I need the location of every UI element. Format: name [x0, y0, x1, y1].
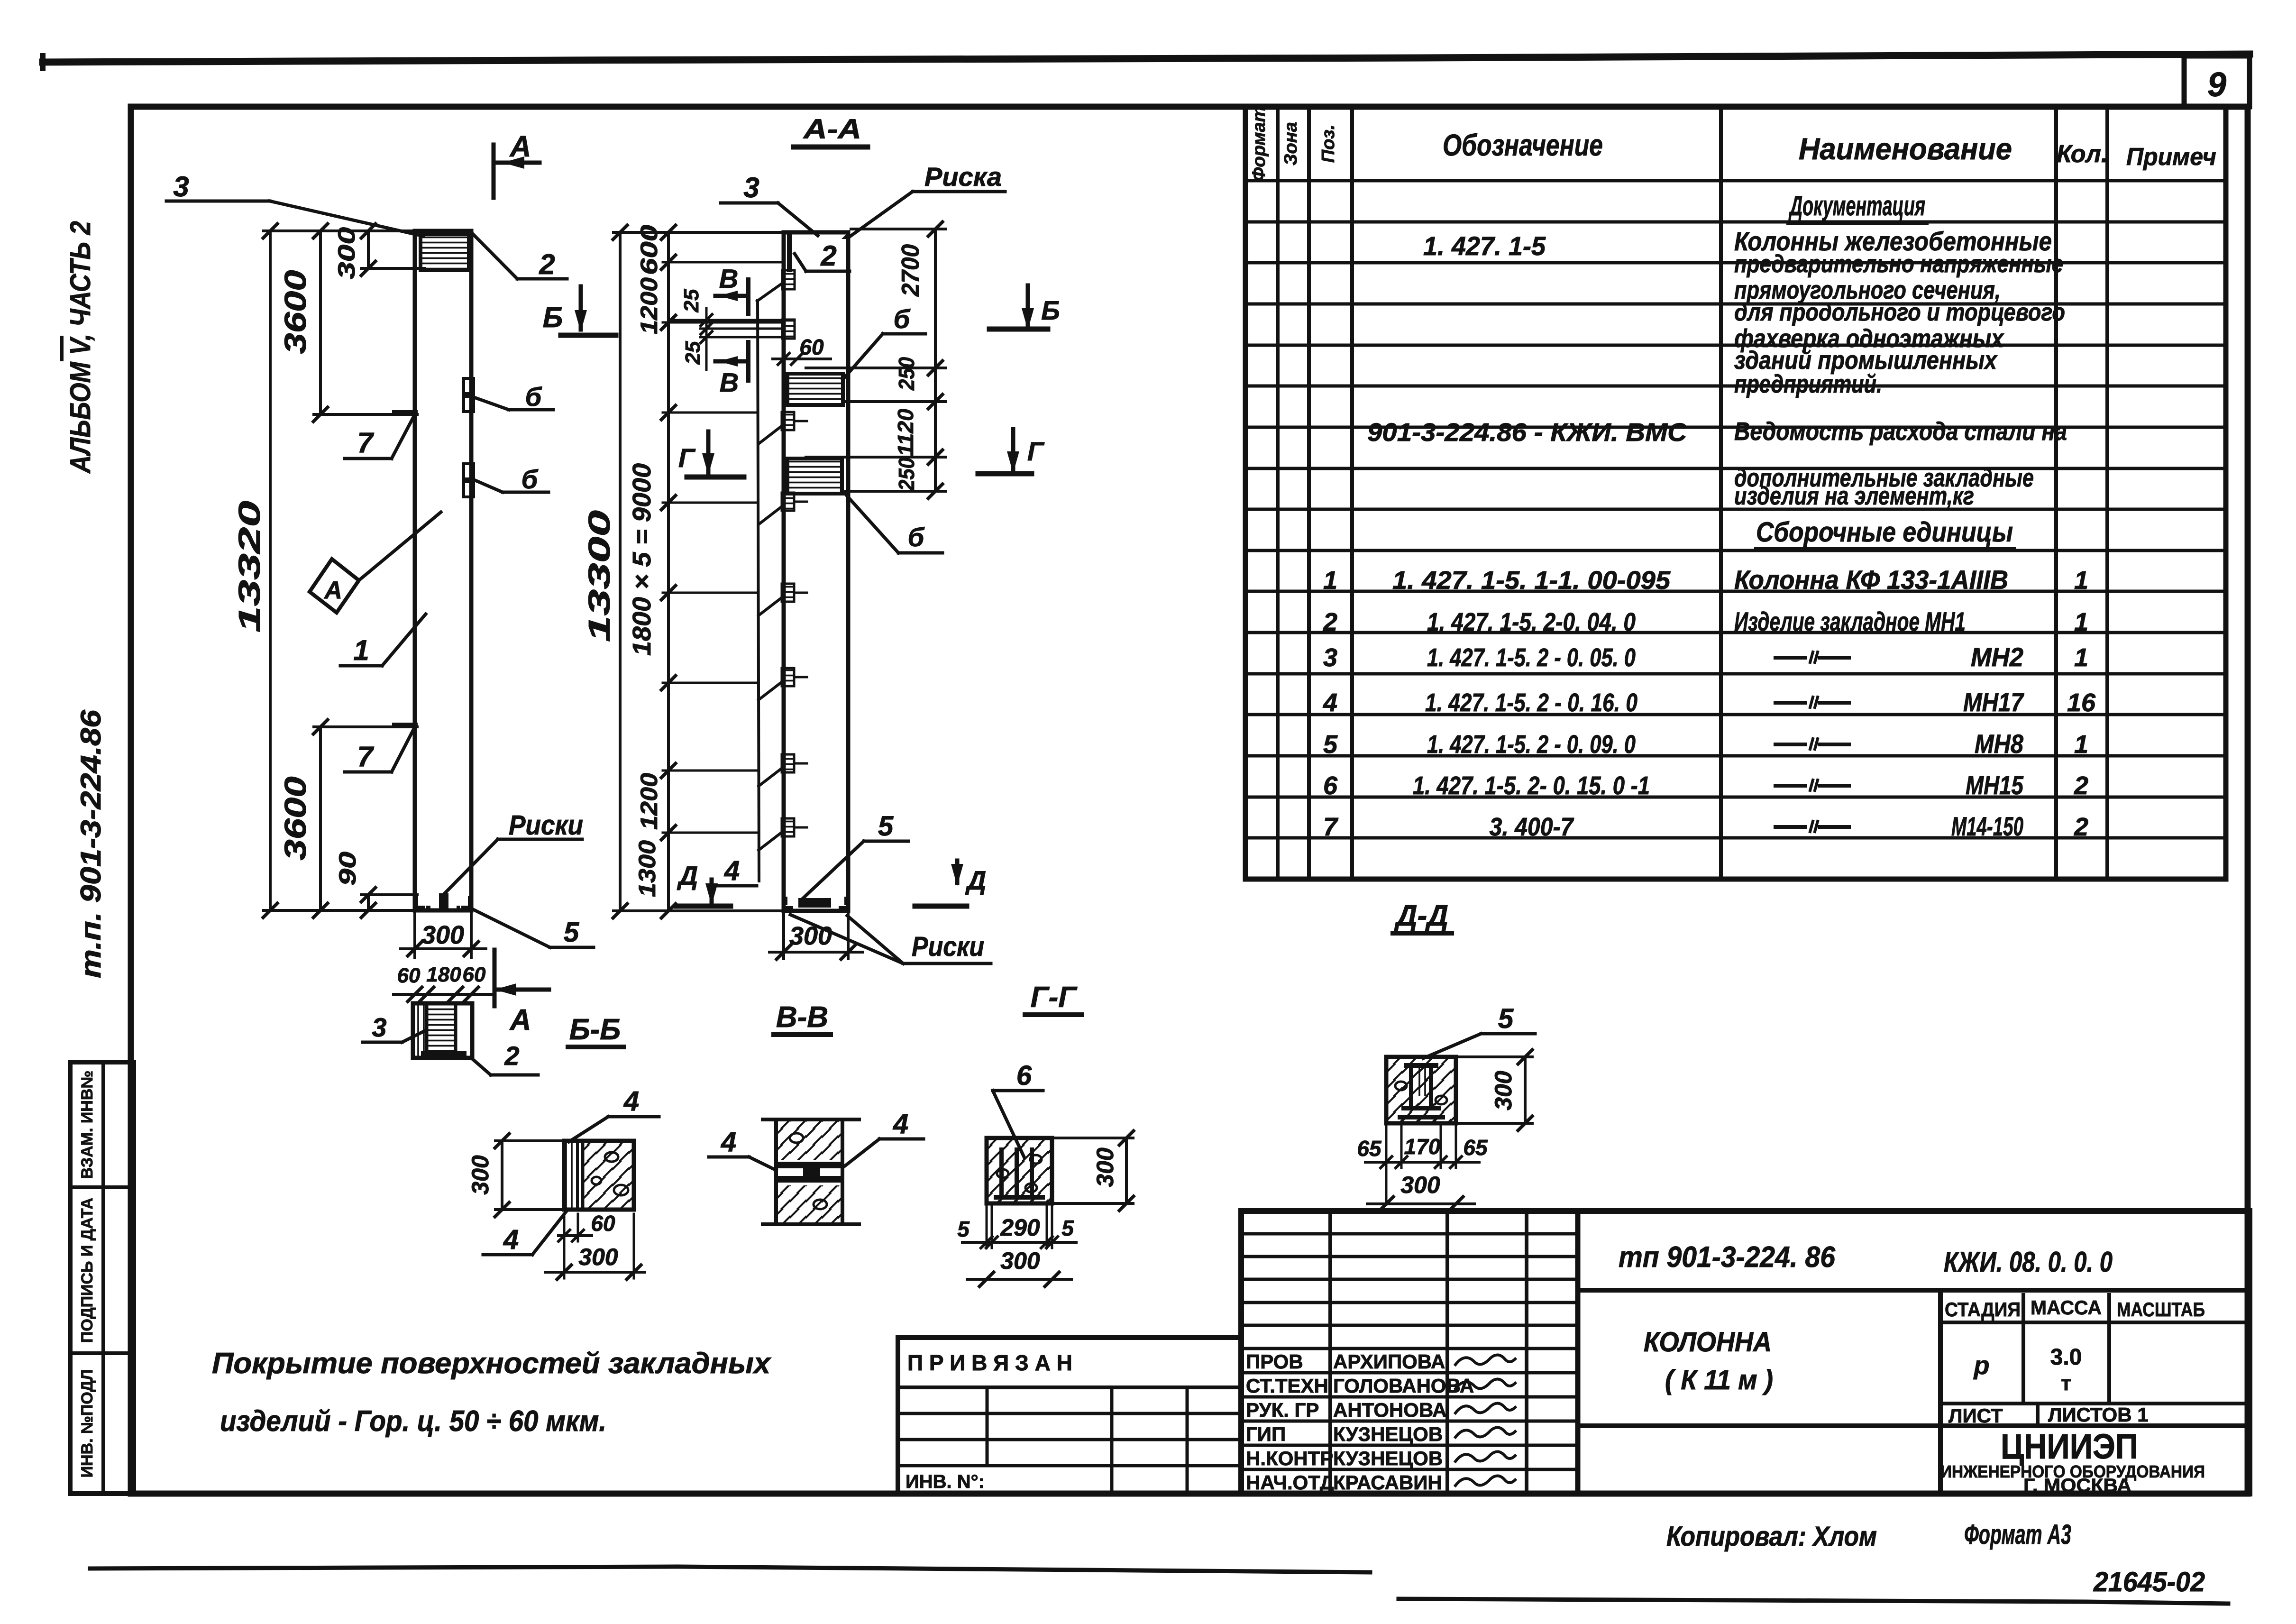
svg-text:предварительно напряженные: предварительно напряженные: [1734, 250, 2063, 278]
svg-text:1: 1: [2074, 566, 2088, 595]
dimension 90 line: [367, 895, 370, 910]
specification table outer box: [1245, 107, 2226, 879]
extension line bottom of column 1: [264, 909, 415, 912]
extension lines below column 1: [413, 913, 416, 958]
svg-text:Г: Г: [1027, 436, 1045, 466]
dashed corner mark bottom right of column 1: [458, 898, 469, 907]
svg-text:Б: Б: [543, 302, 563, 333]
svg-text:Риски: Риски: [912, 931, 984, 962]
svg-text:ВЗАМ. ИНВ№: ВЗАМ. ИНВ№: [78, 1071, 96, 1179]
svg-text:ГОЛОВАНОВА: ГОЛОВАНОВА: [1333, 1375, 1474, 1397]
extension lines below A-A: [782, 913, 785, 959]
D-D dimension 65-170-65: [1365, 1161, 1479, 1164]
svg-text:2: 2: [539, 248, 555, 280]
surface marker A rhombus: [310, 559, 359, 613]
svg-text:6: 6: [1323, 771, 1338, 800]
svg-text:1300: 1300: [634, 840, 660, 897]
svg-text:ГИП: ГИП: [1246, 1423, 1286, 1445]
svg-text:1: 1: [2074, 608, 2088, 636]
svg-text:4: 4: [503, 1224, 519, 1255]
svg-text:В: В: [719, 264, 738, 294]
svg-text:300: 300: [1400, 1172, 1440, 1198]
riska notch top right of A-A: [842, 232, 848, 239]
D-D dimension 300 right: [1524, 1057, 1527, 1123]
svg-text:1: 1: [2074, 730, 2088, 759]
embedded plate MN1 edge bar at top of A-A: [787, 234, 792, 272]
V-V break line top: [763, 1118, 859, 1121]
bolt mark upper near top (item 4): [782, 270, 795, 289]
svg-text:б: б: [908, 522, 925, 552]
svg-text:170: 170: [1404, 1134, 1441, 1159]
svg-text:т: т: [2061, 1372, 2071, 1395]
svg-text:Сборочные единицы: Сборочные единицы: [1756, 517, 2013, 548]
dimension 13300 line: [619, 232, 622, 911]
svg-text:ЛИСТОВ 1: ЛИСТОВ 1: [2048, 1404, 2149, 1426]
svg-text:МН17: МН17: [1963, 687, 2024, 717]
svg-text:290: 290: [1000, 1214, 1040, 1241]
svg-text:Копировал: Хлом: Копировал: Хлом: [1666, 1521, 1877, 1552]
svg-text:Г: Г: [678, 443, 696, 473]
D-D dimension 300 bottom: [1367, 1202, 1474, 1205]
V-V concrete body: [776, 1119, 842, 1224]
extension line bottom of A-A: [613, 909, 784, 912]
svg-text:3600: 3600: [278, 270, 312, 354]
svg-text:1800 × 5 = 9000: 1800 × 5 = 9000: [628, 463, 656, 656]
svg-text:250: 250: [894, 357, 919, 391]
sheet bottom edge line right: [1399, 1599, 2228, 1604]
svg-text:М14-150: М14-150: [1951, 811, 2023, 841]
svg-text:13300: 13300: [582, 510, 616, 642]
svg-text:21645-02: 21645-02: [2093, 1567, 2205, 1597]
overline of roman numeral V: [60, 338, 64, 359]
sheet bottom edge line left: [90, 1567, 1370, 1572]
svg-text:Покрытие поверхностей заклад: Покрытие поверхностей закладных: [212, 1347, 772, 1380]
svg-text:3600: 3600: [278, 777, 312, 861]
svg-text:Кол.: Кол.: [2057, 140, 2108, 168]
dimension 13320 line: [269, 231, 272, 910]
svg-text:4: 4: [721, 1127, 736, 1157]
dimension 3600 top line: [319, 231, 322, 414]
svg-text:А: А: [509, 1004, 531, 1037]
svg-text:1. 427. 1-5. 2 - 0. 09. 0: 1. 427. 1-5. 2 - 0. 09. 0: [1427, 730, 1636, 759]
V-V joint plates: [776, 1162, 842, 1168]
extension line at 300 top level: [361, 267, 424, 270]
svg-text:Д: Д: [677, 861, 698, 890]
svg-text:3: 3: [173, 171, 189, 202]
svg-text:Риски: Риски: [509, 810, 583, 841]
svg-text:Г. МОСКВА: Г. МОСКВА: [2023, 1475, 2131, 1496]
svg-text:Изделие закладное МН1: Изделие закладное МН1: [1734, 606, 1966, 636]
svg-text:25: 25: [680, 289, 703, 312]
svg-text:4: 4: [623, 1086, 639, 1117]
riska mark at column 1 bottom center: [439, 893, 448, 909]
svg-text:300: 300: [421, 921, 464, 949]
svg-text:60: 60: [591, 1211, 615, 1236]
svg-text:300: 300: [467, 1155, 494, 1195]
svg-text:7: 7: [1323, 813, 1339, 841]
svg-text:600: 600: [636, 225, 662, 275]
extension line at 90 level: [361, 893, 417, 896]
dimension 300 below column 1 line: [401, 947, 486, 950]
svg-text:ЛИСТ: ЛИСТ: [1948, 1404, 2003, 1427]
svg-text:т.п. 901-3-224.86: т.п. 901-3-224.86: [75, 709, 107, 978]
svg-text:5: 5: [957, 1217, 970, 1241]
section cut mark A top: [492, 145, 496, 198]
embedded plate MN1 (item 3) hatched box on column 1 top: [421, 234, 469, 270]
D-D anchor I-profile: [1404, 1063, 1438, 1068]
bolt marks (item 4) along A-A left edge: [782, 412, 794, 430]
svg-text:Поз.: Поз.: [1318, 125, 1338, 163]
svg-text:1200: 1200: [636, 277, 662, 334]
svg-text:АЛЬБОМ V, ЧАСТЬ 2: АЛЬБОМ V, ЧАСТЬ 2: [64, 221, 96, 474]
svg-text:250: 250: [894, 458, 919, 491]
svg-text:5: 5: [1323, 730, 1338, 759]
svg-text:предприятий.: предприятий.: [1734, 370, 1882, 398]
svg-text:7: 7: [357, 427, 374, 459]
svg-text:4: 4: [724, 855, 740, 886]
svg-text:б: б: [521, 464, 539, 494]
svg-text:Г-Г: Г-Г: [1031, 981, 1078, 1014]
svg-text:60: 60: [799, 335, 824, 359]
svg-text:Б-Б: Б-Б: [569, 1013, 621, 1046]
svg-text:3: 3: [1323, 643, 1337, 672]
svg-text:1: 1: [353, 634, 369, 666]
G-G dimension 300 bottom: [967, 1278, 1071, 1281]
svg-text:РУК. ГР: РУК. ГР: [1246, 1399, 1319, 1421]
section A bottom plate bar: [421, 1051, 467, 1058]
dashed corner mark bottom left of column 1: [417, 898, 429, 907]
svg-text:Формат: Формат: [1249, 106, 1269, 182]
svg-text:2: 2: [2074, 813, 2088, 841]
extension lines for MN15 boxes: [806, 367, 946, 369]
specification table column lines: [1276, 107, 1280, 879]
svg-text:МН8: МН8: [1975, 729, 2024, 759]
svg-text:90: 90: [334, 852, 361, 886]
title block left grid rows: [1241, 1232, 1578, 1236]
svg-text:5: 5: [878, 811, 894, 842]
svg-text:1. 427. 1-5. 2-0. 04. 0: 1. 427. 1-5. 2-0. 04. 0: [1427, 608, 1636, 636]
left stamp column box: [70, 1062, 134, 1494]
svg-text:1120: 1120: [893, 409, 918, 456]
svg-text:13320: 13320: [232, 501, 266, 633]
svg-text:АРХИПОВА: АРХИПОВА: [1333, 1350, 1445, 1373]
svg-text:300: 300: [1490, 1071, 1517, 1110]
svg-text:65: 65: [1463, 1135, 1488, 1160]
section A plate strip hatch: [413, 1003, 427, 1058]
title block right horizontal lines: [1578, 1288, 2250, 1293]
svg-text:тп 901-3-224. 86: тп 901-3-224. 86: [1619, 1241, 1835, 1274]
svg-text:Н.КОНТР: Н.КОНТР: [1246, 1447, 1333, 1469]
svg-text:2: 2: [1323, 608, 1337, 636]
svg-text:Наименование: Наименование: [1799, 132, 2012, 166]
svg-text:А-А: А-А: [803, 114, 861, 145]
svg-text:АНТОНОВА: АНТОНОВА: [1333, 1399, 1447, 1421]
svg-text:9: 9: [2207, 66, 2226, 104]
svg-text:МН15: МН15: [1966, 770, 2024, 800]
svg-text:3: 3: [743, 172, 759, 203]
svg-text:Б: Б: [1041, 295, 1060, 325]
svg-text:1. 427. 1-5: 1. 427. 1-5: [1423, 231, 1546, 261]
svg-text:СТАДИЯ: СТАДИЯ: [1945, 1298, 2021, 1321]
B-B concrete blobs: [605, 1152, 618, 1162]
svg-text:изделий - Гор. ц. 50 ÷ 60 мкм: изделий - Гор. ц. 50 ÷ 60 мкм.: [220, 1405, 606, 1438]
title block verticals left part: [1328, 1211, 1332, 1494]
svg-text:300: 300: [333, 227, 360, 279]
svg-text:180: 180: [426, 963, 461, 986]
svg-text:Обозначение: Обозначение: [1443, 128, 1603, 162]
svg-text:ЦНИИЭП: ЦНИИЭП: [2001, 1427, 2138, 1466]
G-G anchor bars: [999, 1147, 1004, 1197]
svg-text:3. 400-7: 3. 400-7: [1490, 813, 1575, 841]
svg-text:КЖИ. 08. 0. 0. 0: КЖИ. 08. 0. 0. 0: [1944, 1246, 2113, 1278]
svg-text:Риска: Риска: [924, 162, 1002, 192]
dimension 3600 bottom line: [319, 727, 322, 910]
svg-text:5: 5: [1498, 1003, 1514, 1034]
G-G square: [987, 1138, 1052, 1203]
V-V break line bottom: [763, 1222, 859, 1226]
dimension 60-180-60 line: [393, 993, 493, 996]
svg-text:6: 6: [1016, 1060, 1032, 1091]
svg-text:300: 300: [578, 1244, 618, 1270]
svg-text:б: б: [525, 382, 542, 412]
G-G dimension 300 right: [1125, 1138, 1128, 1203]
svg-text:2: 2: [2074, 771, 2088, 800]
svg-text:4: 4: [893, 1109, 908, 1139]
svg-text:3: 3: [372, 1012, 386, 1042]
svg-text:Примеч: Примеч: [2126, 143, 2216, 171]
svg-text:1. 427. 1-5. 2- 0. 15. 0 -1: 1. 427. 1-5. 2- 0. 15. 0 -1: [1413, 771, 1650, 800]
sheet top edge line: [43, 54, 2250, 62]
svg-text:4: 4: [1323, 688, 1337, 717]
section B-B square: [564, 1141, 634, 1210]
svg-text:16: 16: [2067, 688, 2096, 717]
svg-text:2700: 2700: [897, 244, 924, 297]
embedded plate mark item 6 lower on column 1 right edge: [464, 464, 474, 479]
svg-text:2: 2: [504, 1041, 519, 1071]
svg-text:300: 300: [1000, 1248, 1040, 1274]
svg-text:ПОДПИСЬ И ДАТА: ПОДПИСЬ И ДАТА: [78, 1198, 96, 1343]
svg-text:7: 7: [357, 741, 374, 772]
svg-text:А: А: [323, 577, 342, 604]
svg-text:ПРОВ: ПРОВ: [1246, 1350, 1303, 1373]
dimension 60 at A-A top: [773, 358, 831, 360]
svg-text:Колонна КФ 133-1АIIIВ: Колонна КФ 133-1АIIIВ: [1734, 565, 2008, 595]
drawing frame: [131, 107, 2248, 1494]
svg-text:901-3-224.86 - КЖИ. ВМС: 901-3-224.86 - КЖИ. ВМС: [1367, 418, 1687, 447]
svg-text:р: р: [1973, 1351, 1990, 1380]
svg-text:65: 65: [1357, 1136, 1382, 1161]
svg-text:МН2: МН2: [1971, 642, 2023, 672]
svg-text:300: 300: [1092, 1147, 1118, 1187]
item 7 anchor bar on column 1 edge lower: [395, 723, 415, 728]
section A middle ladder hatch: [427, 1003, 456, 1052]
riska bar at A-A bottom: [798, 898, 831, 908]
svg-text:5: 5: [1061, 1216, 1074, 1240]
extension line A-A top right: [851, 228, 946, 230]
privyazan stamp box: [898, 1338, 1241, 1494]
section cut mark V lower: [746, 342, 750, 380]
svg-text:В: В: [720, 367, 739, 397]
B-B dimension 300 left: [501, 1141, 503, 1210]
sheet number box: [2184, 56, 2250, 107]
dimension 300 below A-A: [769, 951, 863, 954]
svg-text:б: б: [894, 304, 911, 334]
svg-text:( К 11 м ): ( К 11 м ): [1665, 1365, 1773, 1395]
svg-text:60: 60: [397, 964, 421, 987]
svg-text:1: 1: [2074, 643, 2088, 672]
extension line top of column 1: [264, 229, 415, 232]
svg-text:КУЗНЕЦОВ: КУЗНЕЦОВ: [1333, 1423, 1443, 1445]
extension line at 3600 level bottom: [314, 725, 417, 728]
svg-text:КУЗНЕЦОВ: КУЗНЕЦОВ: [1333, 1447, 1443, 1469]
svg-text:3.0: 3.0: [2050, 1345, 2082, 1370]
three extension lines of 25-25 detail: [672, 319, 781, 321]
specification table row lines: [1245, 179, 2226, 183]
dimension 300 top line: [367, 231, 370, 268]
embedded plate mark item 6 upper on column 1 right edge: [464, 378, 474, 394]
B-B embedded plate strip: [564, 1141, 577, 1210]
svg-text:Документация: Документация: [1788, 191, 1925, 221]
svg-text:В-В: В-В: [776, 1001, 828, 1034]
svg-text:Д: Д: [965, 865, 986, 895]
svg-text:5: 5: [564, 917, 579, 948]
svg-text:1200: 1200: [636, 773, 662, 830]
item 7 anchor bar on column 1 edge upper: [395, 410, 415, 416]
svg-text:для продольного и торцевого: для продольного и торцевого: [1734, 299, 2065, 326]
section cut mark A bottom: [493, 950, 497, 1006]
svg-text:МАСШТАБ: МАСШТАБ: [2117, 1298, 2205, 1321]
section A square: [413, 1003, 472, 1058]
svg-text:Формат А3: Формат А3: [1964, 1519, 2071, 1550]
column 1 body (face view): [415, 231, 471, 910]
column A-A body: [784, 232, 848, 911]
svg-text:ИНВ. №ПОДЛ: ИНВ. №ПОДЛ: [78, 1369, 96, 1478]
svg-text:1. 427. 1-5. 2 - 0. 05. 0: 1. 427. 1-5. 2 - 0. 05. 0: [1427, 643, 1636, 672]
G-G dimension 5-290-5: [962, 1241, 1076, 1244]
extension lines at subdimension ticks: [663, 261, 784, 264]
svg-text:МАССА: МАССА: [2031, 1296, 2102, 1319]
B-B dimension 300 bottom: [545, 1271, 645, 1274]
extension line top of A-A: [613, 231, 784, 234]
svg-text:60: 60: [463, 963, 486, 986]
svg-text:Ведомость расхода стали на: Ведомость расхода стали на: [1734, 417, 2067, 446]
extension line at 3600 level top: [314, 413, 417, 416]
dimension 2700/250/1120/250 line: [934, 229, 937, 491]
svg-text:П Р И В Я З А Н: П Р И В Я З А Н: [907, 1350, 1072, 1375]
stadiya massa masshtab box: [1940, 1321, 2250, 1324]
svg-text:Д-Д: Д-Д: [1394, 899, 1448, 932]
collector leader line for item 4 marks: [758, 300, 759, 881]
svg-text:1: 1: [1323, 566, 1337, 595]
B-B concrete hatch: [584, 1141, 634, 1210]
svg-text:1. 427. 1-5. 1-1. 00-095: 1. 427. 1-5. 1-1. 00-095: [1392, 566, 1671, 595]
bolt mark at 25-25 level: [782, 320, 795, 339]
B-B dimension 60: [558, 1234, 592, 1237]
svg-text:2: 2: [820, 240, 836, 272]
svg-text:Зона: Зона: [1281, 122, 1301, 165]
subdimension line 600/1200/1800x5/1200/1300: [667, 232, 670, 911]
svg-text:КОЛОННА: КОЛОННА: [1644, 1327, 1772, 1358]
D-D square: [1386, 1057, 1456, 1123]
svg-text:СТ.ТЕХН: СТ.ТЕХН: [1246, 1375, 1328, 1397]
title block outer: [1241, 1211, 2250, 1494]
svg-text:ИНВ. N°:: ИНВ. N°:: [906, 1471, 985, 1492]
svg-text:НАЧ.ОТД: НАЧ.ОТД: [1246, 1471, 1334, 1494]
dashed corner marks bottom of A-A: [786, 898, 796, 908]
svg-text:А: А: [509, 130, 531, 163]
svg-text:1. 427. 1-5. 2 - 0. 16. 0: 1. 427. 1-5. 2 - 0. 16. 0: [1425, 688, 1637, 717]
embedded plate MN15 lower hatched box: [787, 459, 842, 494]
svg-text:изделия на элемент,кг: изделия на элемент,кг: [1734, 482, 1974, 510]
embedded plate MN15 upper hatched box: [787, 374, 843, 405]
svg-text:300: 300: [789, 922, 832, 950]
svg-text:КРАСАВИН: КРАСАВИН: [1333, 1471, 1442, 1494]
